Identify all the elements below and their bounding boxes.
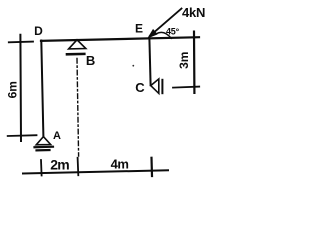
svg-text:A: A bbox=[53, 130, 61, 142]
svg-text:4kN: 4kN bbox=[182, 5, 205, 20]
svg-text:4m: 4m bbox=[111, 156, 129, 171]
svg-text:6m: 6m bbox=[5, 81, 19, 98]
svg-text:C: C bbox=[135, 80, 145, 95]
svg-text:2m: 2m bbox=[50, 156, 69, 172]
svg-text:B: B bbox=[86, 53, 95, 68]
svg-text:3m: 3m bbox=[177, 52, 191, 69]
svg-text:45°: 45° bbox=[166, 26, 180, 36]
svg-text:E: E bbox=[135, 22, 143, 36]
svg-text:D: D bbox=[34, 24, 43, 38]
